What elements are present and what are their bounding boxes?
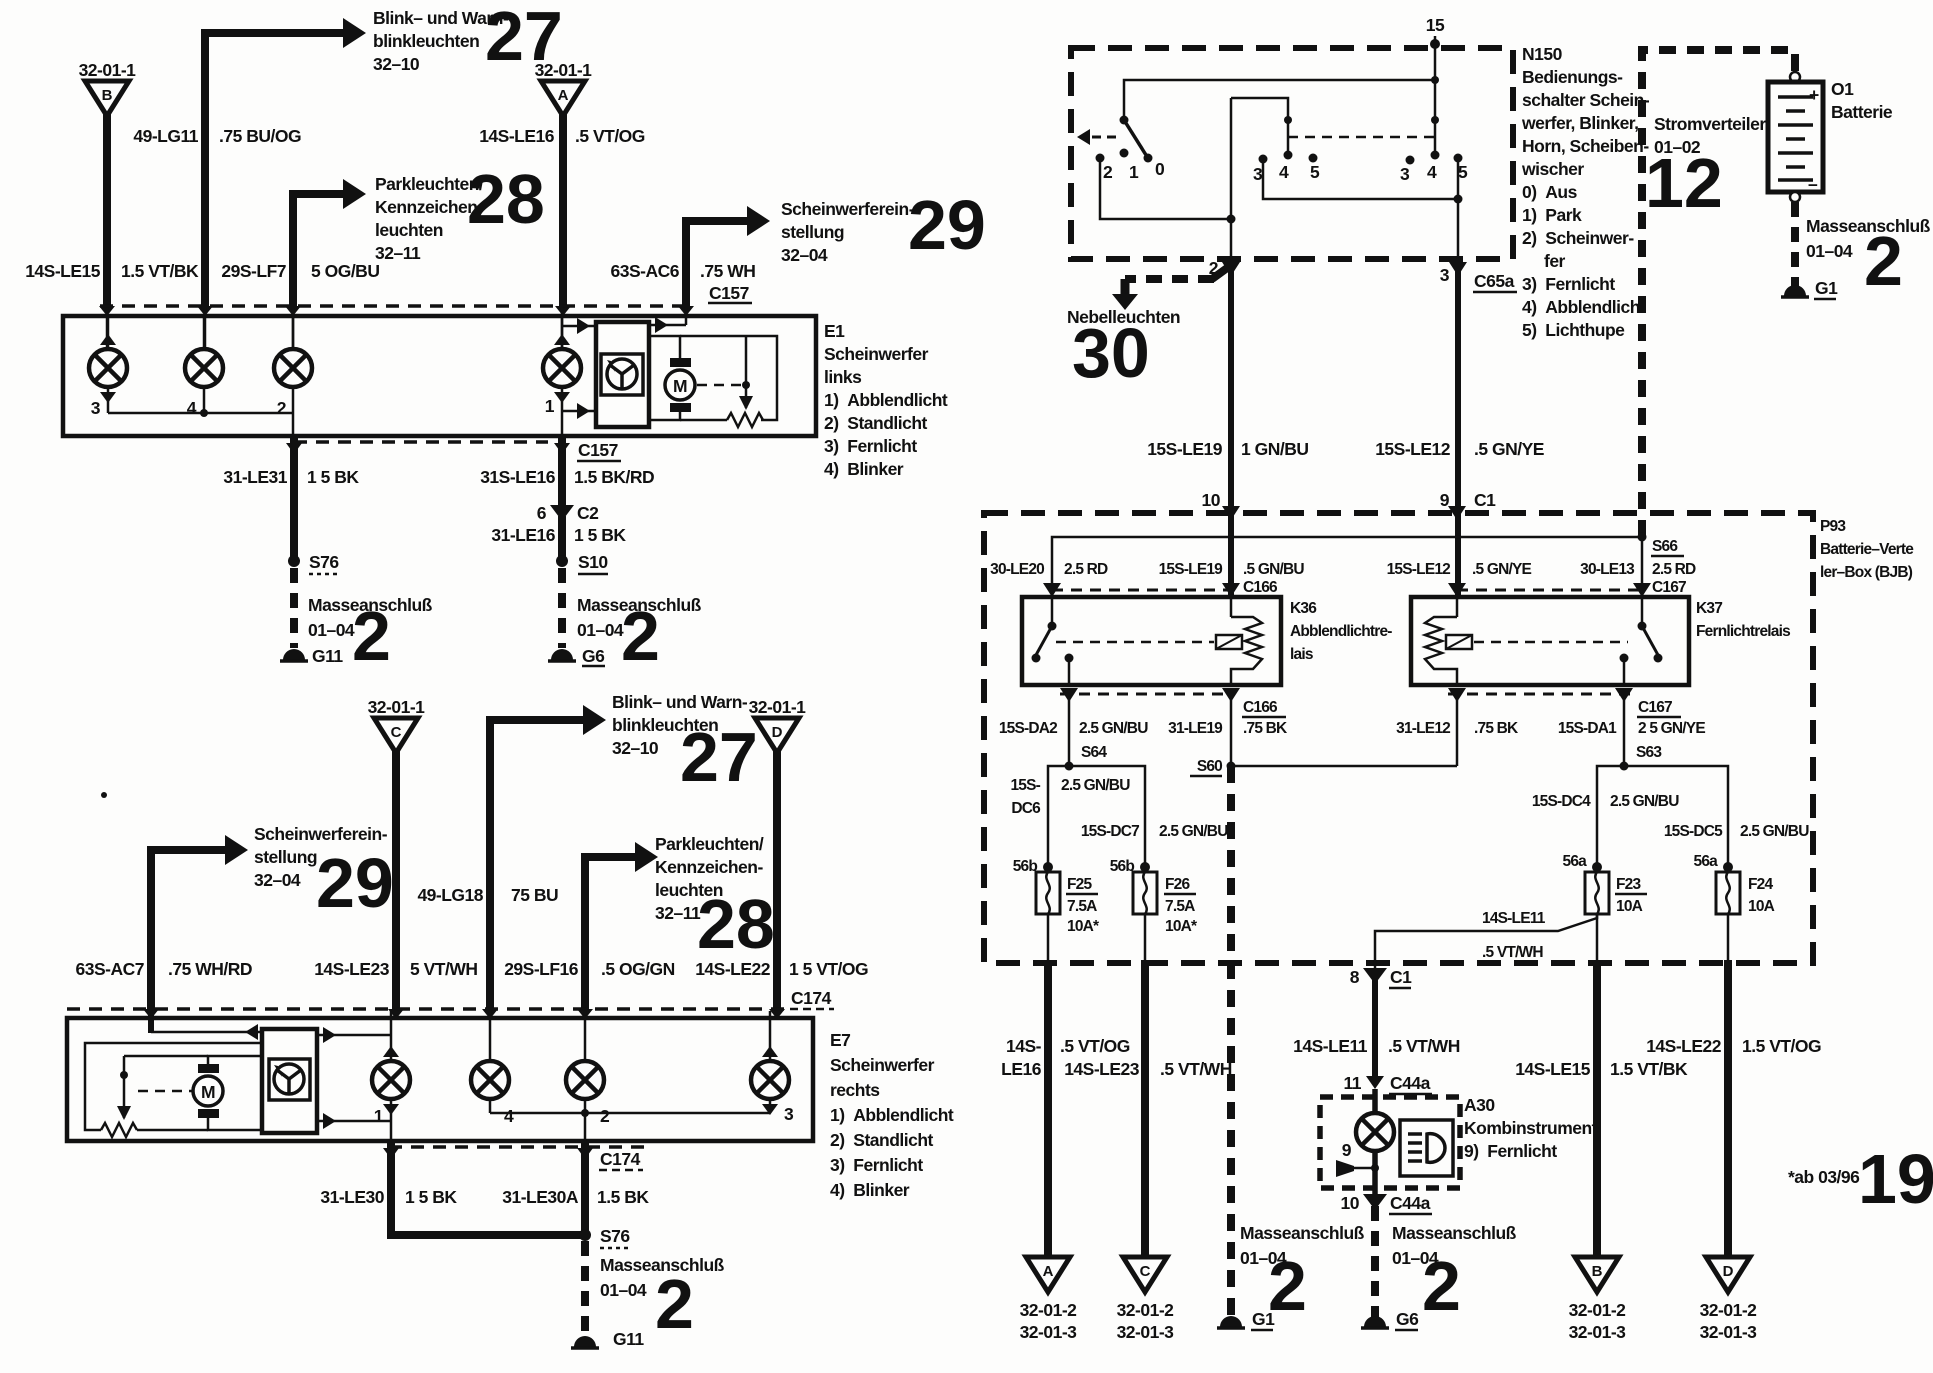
svg-text:M: M (673, 376, 687, 396)
svg-text:Kombinstrument: Kombinstrument (1464, 1118, 1598, 1138)
svg-text:4: 4 (504, 1106, 514, 1126)
splice S66 (1638, 533, 1647, 542)
connector triangle C (374, 718, 418, 753)
svg-text:S76: S76 (600, 1226, 630, 1246)
svg-text:B: B (1592, 1263, 1603, 1280)
svg-text:Scheinwerfer: Scheinwerfer (824, 344, 929, 364)
svg-text:3: 3 (1253, 164, 1263, 184)
svg-text:leuchten: leuchten (375, 220, 443, 240)
svg-text:32–10: 32–10 (612, 738, 659, 758)
svg-text:.5 GN/BU: .5 GN/BU (1243, 561, 1304, 578)
svg-text:C166: C166 (1243, 699, 1278, 716)
svg-text:.5 VT/WH: .5 VT/WH (1160, 1059, 1232, 1079)
switch feed bus wire (1124, 80, 1435, 120)
wire K37 coil return (1456, 698, 1459, 766)
connector triangle C (bottom) (1123, 1257, 1167, 1292)
battery O1 (1790, 72, 1800, 82)
K37 output wire (1623, 658, 1626, 685)
svg-text:29: 29 (908, 186, 986, 264)
blade actuator dashed arrow (1090, 136, 1116, 139)
svg-text:10A: 10A (1616, 898, 1643, 915)
contact 4 (group3) (1431, 151, 1440, 160)
wire 14S-LE16 (F25 to triangle A) (1047, 914, 1050, 963)
wire 31-LE30A (581, 1141, 589, 1239)
svg-text:C167: C167 (1652, 579, 1686, 596)
svg-text:2: 2 (277, 398, 287, 418)
Nebelleuchten tap wire (dashed) (1212, 263, 1234, 279)
svg-text:N150: N150 (1522, 44, 1563, 64)
wire 15S-LE12 (switch to K37) (1455, 259, 1461, 597)
svg-text:2.5 GN/BU: 2.5 GN/BU (1061, 777, 1130, 794)
K36 armature link (dashed) (1056, 641, 1214, 644)
svg-text:G11: G11 (613, 1329, 644, 1349)
svg-text:G11: G11 (312, 646, 343, 666)
wire 49-LG11 to arrow 27 (205, 33, 344, 308)
ground G1 (S60) (1220, 1316, 1242, 1327)
K36 output wire (1068, 658, 1071, 685)
svg-text:32–11: 32–11 (375, 243, 421, 263)
unit connector arrow right (649, 324, 686, 327)
wire 14S-LE22 (F24 to triangle D) (1727, 914, 1730, 963)
connector line C166 bottom (dashed) (1060, 693, 1235, 696)
svg-text:A30: A30 (1464, 1095, 1495, 1115)
unit connector arrows right (E7) (317, 1034, 391, 1037)
svg-text:1) Park: 1) Park (1522, 205, 1582, 225)
wire 14S-LE16 from A to E1 (559, 114, 567, 308)
svg-text:29S-LF7: 29S-LF7 (221, 261, 286, 281)
ground bus inside E1 (108, 412, 293, 415)
ground G11 (283, 649, 305, 660)
ground wire to G6 (dashed) (558, 568, 566, 648)
svg-text:Kennzeichen-: Kennzeichen- (655, 857, 763, 877)
svg-text:C: C (1140, 1263, 1151, 1280)
svg-text:.5 GN/YE: .5 GN/YE (1474, 439, 1544, 459)
N150 switch box (dashed) (1071, 48, 1513, 259)
svg-text:M: M (201, 1082, 215, 1102)
svg-text:5) Lichthupe: 5) Lichthupe (1522, 320, 1625, 340)
svg-text:.75 BK: .75 BK (1243, 720, 1288, 737)
ground G1 (battery) (1784, 285, 1806, 296)
junction dot (E7) (120, 1071, 128, 1079)
leveling unit connector arrows left (562, 325, 596, 328)
contact 3 (group2) (1259, 155, 1268, 164)
svg-text:75 BU: 75 BU (511, 885, 558, 905)
svg-text:12: 12 (1645, 144, 1723, 222)
svg-text:S10: S10 (578, 552, 608, 572)
svg-text:3: 3 (1440, 265, 1450, 285)
contact 1 (group1) (1120, 149, 1129, 158)
svg-text:fer: fer (1544, 251, 1566, 271)
svg-text:Masseanschluß: Masseanschluß (1392, 1223, 1517, 1243)
wire 15S-LE19 (switch to K36) (1228, 259, 1234, 597)
ground wire to G11 (dashed) (290, 568, 298, 648)
svg-text:32–10: 32–10 (373, 54, 420, 74)
svg-text:15S-LE12: 15S-LE12 (1387, 561, 1451, 578)
connector arrows into K36 (1043, 583, 1061, 597)
svg-text:30: 30 (1072, 314, 1150, 392)
svg-text:32–04: 32–04 (781, 245, 828, 265)
svg-text:7.5A: 7.5A (1165, 898, 1195, 915)
svg-text:.5 OG/GN: .5 OG/GN (601, 959, 675, 979)
motor loop wire (680, 336, 777, 420)
svg-text:.5 GN/YE: .5 GN/YE (1472, 561, 1532, 578)
svg-text:C167: C167 (1638, 699, 1672, 716)
splice S10 (556, 555, 568, 567)
svg-text:C44a: C44a (1390, 1193, 1431, 1213)
svg-text:G6: G6 (582, 646, 605, 666)
stray scan mark (101, 792, 107, 798)
wheel symbol (607, 359, 637, 389)
svg-text:14S-LE11: 14S-LE11 (1293, 1036, 1368, 1056)
svg-text:3: 3 (1400, 164, 1410, 184)
lamp E1-1 (543, 349, 581, 387)
svg-text:5: 5 (1458, 162, 1468, 182)
svg-text:B: B (102, 87, 113, 104)
ground bus wire to S76 (387, 1231, 585, 1239)
svg-text:31-LE31: 31-LE31 (223, 467, 287, 487)
svg-text:LE16: LE16 (1001, 1059, 1042, 1079)
svg-text:19: 19 (1858, 1140, 1933, 1218)
svg-text:lais: lais (1290, 646, 1313, 663)
pin 15 node (1430, 39, 1440, 49)
wire 14S-LE23 (F26 to triangle C) (1144, 914, 1147, 963)
svg-text:.75 BK: .75 BK (1474, 720, 1519, 737)
fuse F24 (1723, 862, 1733, 872)
svg-text:15S-LE19: 15S-LE19 (1147, 439, 1223, 459)
K36 switch contact (1051, 597, 1054, 626)
headlamp leveling unit box E7 (262, 1029, 317, 1133)
svg-text:5 VT/WH: 5 VT/WH (410, 959, 477, 979)
lamp E7-2 (566, 1061, 604, 1099)
svg-text:31-LE30A: 31-LE30A (502, 1187, 579, 1207)
svg-text:.5 VT/WH: .5 VT/WH (1482, 944, 1543, 961)
svg-text:P93: P93 (1820, 518, 1846, 535)
svg-text:Masseanschluß: Masseanschluß (1240, 1223, 1365, 1243)
svg-text:2: 2 (1422, 1247, 1461, 1325)
svg-text:C65a: C65a (1474, 271, 1515, 291)
svg-text:C2: C2 (577, 503, 599, 523)
svg-text:3: 3 (91, 398, 101, 418)
contact 5 (group3) (1454, 154, 1463, 163)
svg-text:8: 8 (1350, 967, 1360, 987)
svg-text:29S-LF16: 29S-LF16 (504, 959, 579, 979)
connector triangle B (85, 81, 129, 116)
arrow to Parkleuchten (E7) (635, 842, 658, 872)
svg-text:1 5 BK: 1 5 BK (574, 525, 626, 545)
svg-text:15S-DC7: 15S-DC7 (1081, 823, 1139, 840)
svg-text:Fernlichtrelais: Fernlichtrelais (1696, 623, 1790, 640)
wire pin15 to switch bus (1434, 36, 1437, 80)
svg-text:11: 11 (1344, 1073, 1362, 1093)
connector 6 C2 (550, 505, 574, 521)
svg-text:F23: F23 (1616, 876, 1641, 893)
svg-text:C174: C174 (600, 1149, 641, 1169)
svg-text:30-LE13: 30-LE13 (1580, 561, 1635, 578)
svg-text:Parkleuchten/: Parkleuchten/ (655, 834, 764, 854)
svg-text:56b: 56b (1110, 858, 1135, 875)
svg-text:3: 3 (784, 1104, 794, 1124)
svg-text:14S-LE23: 14S-LE23 (1064, 1059, 1140, 1079)
svg-text:.5 VT/OG: .5 VT/OG (575, 126, 645, 146)
svg-text:1.5 VT/BK: 1.5 VT/BK (121, 261, 199, 281)
wire 49-LG18 to arrow 27 (490, 720, 584, 1011)
connector arrows below K36 (1060, 688, 1078, 702)
svg-text:14S-LE15: 14S-LE15 (1515, 1059, 1591, 1079)
wire contact2 to output (1100, 162, 1231, 219)
svg-text:1.5 VT/OG: 1.5 VT/OG (1742, 1036, 1821, 1056)
svg-text:Stromverteiler: Stromverteiler (1654, 114, 1766, 134)
junction dot (742, 381, 750, 389)
wire 14S-LE11 to A30 (1372, 980, 1378, 1076)
svg-text:Bedienungs-: Bedienungs- (1522, 67, 1623, 87)
svg-text:Batterie–Verte: Batterie–Verte (1820, 541, 1914, 558)
svg-text:14S-: 14S- (1006, 1036, 1042, 1056)
svg-text:Abblendlichtre-: Abblendlichtre- (1290, 623, 1392, 640)
svg-text:14S-LE15: 14S-LE15 (25, 261, 101, 281)
wire K37 output to S63 (1623, 698, 1626, 766)
motor dashed control line (E7) (138, 1090, 193, 1093)
connector triangle A (541, 81, 585, 116)
svg-text:F25: F25 (1067, 876, 1092, 893)
wire contact3 to contact5 group3 (1263, 162, 1458, 199)
connector 10 C44a (1363, 1194, 1387, 1210)
svg-text:49-LG18: 49-LG18 (417, 885, 483, 905)
wire 31-LE30 (387, 1141, 395, 1239)
svg-text:0) Aus: 0) Aus (1522, 182, 1578, 202)
svg-text:2.5 RD: 2.5 RD (1652, 561, 1696, 578)
svg-text:rechts: rechts (830, 1080, 880, 1100)
svg-text:32-01-3: 32-01-3 (1569, 1322, 1627, 1342)
svg-text:01–04: 01–04 (308, 620, 355, 640)
svg-text:K36: K36 (1290, 600, 1317, 617)
contact 2 (group1) (1096, 154, 1105, 163)
svg-text:wischer: wischer (1521, 159, 1584, 179)
connector triangle B (bottom) (1575, 1257, 1619, 1292)
svg-text:S60: S60 (1197, 758, 1222, 775)
svg-text:3) Fernlicht: 3) Fernlicht (830, 1155, 923, 1175)
motor top wire (E7) (208, 1056, 262, 1064)
svg-text:1 GN/BU: 1 GN/BU (1241, 439, 1308, 459)
svg-text:S64: S64 (1081, 744, 1107, 761)
indicator lamp (A30) (1372, 1089, 1378, 1113)
svg-text:stellung: stellung (781, 222, 844, 242)
arrow to Parkleuchten (343, 179, 366, 209)
K37 coil core box (1446, 635, 1472, 649)
wire 29S-LF7 to arrow 28 (293, 194, 344, 308)
svg-text:2: 2 (352, 597, 391, 675)
switch blade pivot (1120, 116, 1129, 125)
motor M (E7) (198, 1064, 219, 1073)
svg-text:1 5 VT/OG: 1 5 VT/OG (789, 959, 868, 979)
svg-text:3) Fernlicht: 3) Fernlicht (824, 436, 917, 456)
svg-text:S63: S63 (1636, 744, 1662, 761)
svg-text:1 5 BK: 1 5 BK (405, 1187, 457, 1207)
svg-text:1.5 BK: 1.5 BK (597, 1187, 649, 1207)
lamp E7-1 (372, 1061, 410, 1099)
E7 headlamp box (67, 1018, 813, 1141)
svg-text:10A*: 10A* (1067, 918, 1100, 935)
svg-text:15S-DC4: 15S-DC4 (1532, 793, 1591, 810)
connector triangle A (bottom) (1026, 1257, 1070, 1292)
wire 31-LE16 (558, 516, 566, 560)
ground wire to G11 (E7, dashed) (581, 1241, 589, 1336)
svg-text:1: 1 (545, 396, 555, 416)
svg-text:C157: C157 (578, 440, 618, 460)
svg-text:31-LE19: 31-LE19 (1168, 720, 1223, 737)
fuse F26 (1140, 862, 1150, 872)
unit connector arrow left (E7) (151, 1031, 262, 1034)
ground G6 (A30) (1364, 1316, 1386, 1327)
svg-text:C: C (391, 724, 402, 741)
Stromverteiler feed wire (dashed) (1642, 50, 1795, 537)
lamp E1-2 (274, 349, 312, 387)
svg-text:DC6: DC6 (1011, 800, 1041, 817)
svg-text:9: 9 (1342, 1140, 1352, 1160)
svg-text:3) Fernlicht: 3) Fernlicht (1522, 274, 1615, 294)
connector line C167 bottom (dashed) (1448, 693, 1630, 696)
motor dashed control line (697, 384, 742, 387)
horn symbol (A30) (1336, 1160, 1354, 1177)
wire group2 pole (1231, 98, 1288, 155)
connector arrows below K37 (1448, 688, 1466, 702)
svg-text:32-01-1: 32-01-1 (535, 60, 593, 80)
svg-text:4: 4 (1279, 162, 1289, 182)
svg-text:stellung: stellung (254, 847, 317, 867)
resistor (potentiometer track) E1 (727, 413, 763, 427)
svg-text:C1: C1 (1474, 490, 1496, 510)
lamp E1-3 (89, 349, 127, 387)
wire 14S-LE15 (F23 to triangle B) (1596, 914, 1599, 963)
svg-text:32-01-3: 32-01-3 (1117, 1322, 1175, 1342)
svg-text:E1: E1 (824, 321, 845, 341)
svg-text:31-LE16: 31-LE16 (491, 525, 555, 545)
ground wire to G6 (A30, dashed) (1371, 1206, 1379, 1317)
svg-text:15S-: 15S- (1010, 777, 1040, 794)
svg-text:+: + (1809, 85, 1819, 105)
svg-text:4) Blinker: 4) Blinker (830, 1180, 910, 1200)
wheel symbol (E7) (274, 1064, 304, 1094)
wire 14S-LE11 from F23 (1375, 914, 1597, 973)
ground bus inside E7 (490, 1112, 770, 1115)
svg-text:2: 2 (600, 1106, 610, 1126)
svg-text:Horn, Scheiben-: Horn, Scheiben- (1522, 136, 1649, 156)
svg-text:5 OG/BU: 5 OG/BU (311, 261, 379, 281)
svg-text:2.5 GN/BU: 2.5 GN/BU (1610, 793, 1679, 810)
connector line C166 top (dashed) (1052, 589, 1231, 592)
arrow to Blink- und Warnblinkleuchten (343, 18, 366, 48)
svg-text:15: 15 (1426, 15, 1445, 35)
svg-text:Scheinwerfer: Scheinwerfer (830, 1055, 935, 1075)
wheel symbol square (601, 354, 643, 395)
svg-text:32-01-2: 32-01-2 (1569, 1300, 1627, 1320)
svg-text:14S-LE23: 14S-LE23 (314, 959, 390, 979)
svg-text:63S-AC6: 63S-AC6 (611, 261, 680, 281)
connector line C167 top (dashed) (1457, 589, 1642, 592)
svg-text:.5 VT/WH: .5 VT/WH (1388, 1036, 1460, 1056)
connector line C157 bottom (dashed) (294, 440, 548, 444)
ground G6 (551, 649, 573, 660)
svg-text:2.5 RD: 2.5 RD (1064, 561, 1108, 578)
svg-text:5: 5 (1310, 162, 1320, 182)
svg-text:1 5 BK: 1 5 BK (307, 467, 359, 487)
svg-text:49-LG11: 49-LG11 (133, 126, 198, 146)
contact 5 (group2) (1309, 154, 1318, 163)
svg-text:7.5A: 7.5A (1067, 898, 1097, 915)
svg-text:–: – (1808, 174, 1818, 194)
K37 switch contact (1641, 597, 1644, 626)
svg-text:01–04: 01–04 (1806, 241, 1853, 261)
motor top wire (649, 336, 680, 358)
E1 headlamp box (63, 316, 816, 436)
svg-text:30-LE20: 30-LE20 (990, 561, 1044, 578)
svg-text:Scheinwerferein-: Scheinwerferein- (254, 824, 388, 844)
svg-text:01–04: 01–04 (600, 1280, 647, 1300)
fuse F25 (1043, 862, 1053, 872)
A30 instrument cluster box (dashed) (1320, 1097, 1460, 1188)
svg-text:1: 1 (1129, 162, 1139, 182)
svg-text:G6: G6 (1396, 1309, 1419, 1329)
svg-text:S66: S66 (1652, 538, 1678, 555)
svg-text:Scheinwerferein-: Scheinwerferein- (781, 199, 915, 219)
svg-text:9: 9 (1440, 490, 1450, 510)
svg-text:.75 BU/OG: .75 BU/OG (219, 126, 301, 146)
svg-text:6: 6 (537, 503, 547, 523)
svg-text:C44a: C44a (1390, 1073, 1431, 1093)
svg-text:4: 4 (1427, 162, 1437, 182)
svg-text:2) Standlicht: 2) Standlicht (830, 1130, 934, 1150)
svg-text:2: 2 (1864, 222, 1903, 300)
K37 armature link (dashed) (1474, 641, 1628, 644)
svg-text:2: 2 (1268, 1247, 1307, 1325)
svg-text:1) Abblendlicht: 1) Abblendlicht (830, 1105, 954, 1125)
switch blade (1124, 120, 1146, 155)
wire K36 coil return to S60 (1230, 698, 1233, 766)
svg-text:15S-LE19: 15S-LE19 (1159, 561, 1224, 578)
wire 31-LE31 (290, 436, 298, 560)
contact 4 (group2) (1284, 151, 1293, 160)
svg-text:15S-DC5: 15S-DC5 (1664, 823, 1723, 840)
svg-text:15S-DA2: 15S-DA2 (999, 720, 1057, 737)
wheel symbol square (E7) (269, 1059, 310, 1100)
lamp E1-4 (185, 349, 223, 387)
connector line C157 top (dashed) (100, 304, 694, 308)
svg-text:D: D (772, 724, 783, 741)
contact 0 (group1) (1144, 154, 1153, 163)
svg-text:32-01-2: 32-01-2 (1700, 1300, 1758, 1320)
mechanical link (dashed) (1288, 136, 1435, 139)
wire 14S-LE22 from D to E7 (773, 751, 781, 1011)
svg-text:28: 28 (467, 160, 545, 238)
svg-text:31S-LE16: 31S-LE16 (480, 467, 556, 487)
wire 31S-LE16 (558, 436, 566, 512)
svg-text:32–04: 32–04 (254, 870, 301, 890)
svg-text:E7: E7 (830, 1030, 850, 1050)
fuse F23 (1592, 862, 1602, 872)
K36 coil (1230, 597, 1233, 617)
svg-text:ler–Box (BJB): ler–Box (BJB) (1820, 564, 1913, 581)
svg-text:01–04: 01–04 (577, 620, 624, 640)
svg-text:.75 WH/RD: .75 WH/RD (168, 959, 252, 979)
P93 battery junction box (dashed) (984, 513, 1813, 963)
svg-text:A: A (558, 87, 569, 104)
svg-text:31-LE30: 31-LE30 (320, 1187, 384, 1207)
connector line C174 bottom (dashed) (389, 1145, 651, 1149)
splice S76 (288, 555, 300, 567)
svg-text:2: 2 (621, 597, 660, 675)
high-beam telltale icon (A30) (1400, 1120, 1453, 1176)
ground G11 (E7) (574, 1336, 596, 1347)
svg-text:1.5 BK/RD: 1.5 BK/RD (574, 467, 654, 487)
